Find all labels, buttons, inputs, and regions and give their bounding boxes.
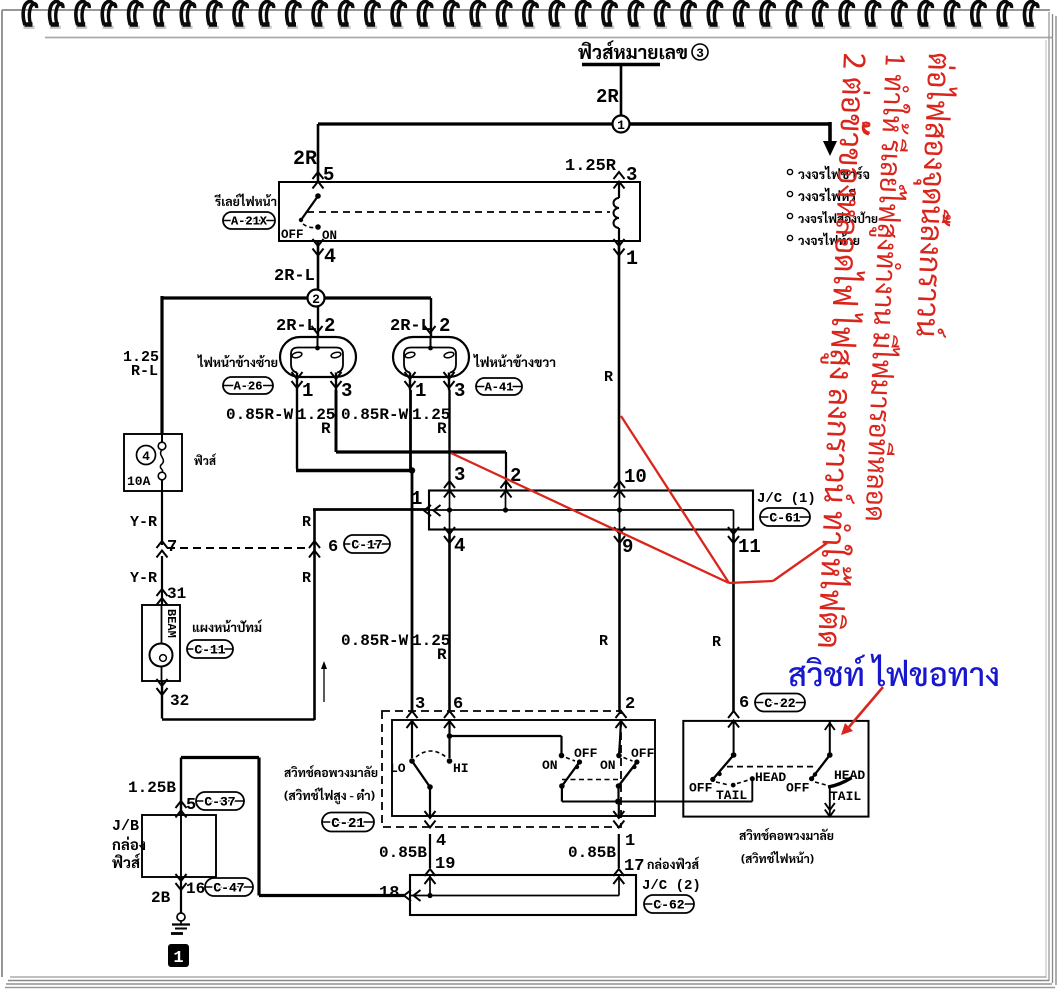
svg-text:3: 3 (696, 46, 704, 61)
dashed OFF-TAIL pole1 (716, 782, 729, 785)
dashed ON-OFF link B (624, 758, 633, 762)
grey rule under binding (45, 37, 1052, 39)
JC1 pin10 arrows (614, 481, 625, 488)
circled 4 (137, 446, 156, 465)
beam indicator box C-11 (142, 605, 180, 681)
wire 0.85R-W down to C-21 pin3 (411, 471, 414, 713)
pole1 arm (713, 755, 734, 779)
passing switch A ON contact (559, 753, 565, 759)
svg-text:19: 19 (435, 855, 455, 874)
svg-text:J/B: J/B (112, 818, 139, 835)
junction box J/C(2) C-62 (410, 875, 636, 915)
wire down to C-37 pin5 (180, 758, 182, 816)
lighting switch pole1 contact (731, 752, 737, 758)
svg-text:32: 32 (170, 692, 189, 710)
svg-text:2R-L: 2R-L (274, 267, 315, 286)
relay label Thai (214, 193, 276, 206)
svg-text:3: 3 (454, 380, 465, 402)
svg-text:2R-L: 2R-L (276, 317, 317, 336)
wire 2R from fuse to node 1 (620, 65, 623, 117)
circuit list row 1 (787, 169, 792, 174)
wire node1 to relay pin5 (318, 122, 613, 125)
wire to JC1 pin2 (505, 452, 507, 490)
svg-text:2R: 2R (293, 148, 317, 171)
relay coil (618, 182, 620, 198)
C-21 pin1 arrows (613, 811, 624, 818)
svg-text:BEAM: BEAM (164, 609, 178, 638)
passing switch A OFF contact (577, 759, 582, 764)
dashed TAIL-HEAD pole1 (737, 780, 749, 784)
bold wire 1.25R horizontal (336, 450, 506, 453)
svg-text:ON: ON (600, 758, 616, 773)
wire HEAD down to dimmer bus (751, 779, 753, 802)
passing switch B ON contact (616, 753, 622, 759)
JC1 pin2 arrows (501, 481, 512, 488)
JC1 pin11 arrows (728, 527, 739, 534)
red pointer line from 1.25R wire (451, 453, 729, 583)
oval C-21 (322, 813, 374, 832)
label box Thai (112, 837, 145, 851)
svg-text:6: 6 (453, 695, 463, 714)
red pointer line from R wire (621, 416, 729, 583)
wire node2 to right bulb (324, 296, 431, 299)
dashed box C-21 (382, 711, 621, 827)
wire node1 to right feed arrow (629, 122, 830, 126)
HEAD contact pole1 (750, 776, 755, 781)
svg-text:OFF: OFF (574, 746, 598, 761)
svg-text:Y-R: Y-R (130, 514, 157, 531)
wire JC1 pin11 down to C-22 (732, 530, 735, 713)
svg-text:HI: HI (453, 761, 469, 776)
svg-text:R: R (302, 514, 311, 531)
svg-text:0.85R-W: 0.85R-W (341, 632, 409, 650)
svg-text:1: 1 (626, 248, 638, 271)
label hi-lo switch Thai (284, 788, 374, 805)
svg-text:HEAD: HEAD (755, 770, 786, 785)
label fuse box Thai JC2 (647, 857, 699, 869)
svg-text:4: 4 (324, 246, 336, 269)
JC1 pin9 arrows (614, 527, 625, 534)
svg-text:11: 11 (738, 536, 761, 558)
svg-text:2B: 2B (151, 889, 171, 907)
svg-text:31: 31 (167, 585, 186, 603)
C-37 pin5 arrows (176, 801, 187, 808)
JC2 pin19 arrows (425, 869, 436, 876)
C-47 pin16 arrows (176, 874, 187, 881)
svg-text:TAIL: TAIL (716, 788, 747, 803)
svg-text:3: 3 (454, 464, 465, 486)
svg-text:C-61: C-61 (769, 510, 800, 525)
wire fuse to pin7 (161, 491, 163, 545)
JC2 inner bus (410, 895, 619, 897)
pin2 chevron left bulb (312, 326, 323, 333)
node 1 (613, 116, 630, 133)
oval A-41 (476, 378, 522, 395)
pole2 TAIL thick arm (828, 778, 852, 787)
bottom page-stack lines (10, 976, 1046, 978)
svg-text:3: 3 (341, 380, 352, 402)
svg-text:R: R (604, 369, 613, 386)
pole2 output down arrow (829, 785, 831, 817)
wire R vertical C-17 (313, 509, 316, 721)
page number badge 1 (168, 944, 189, 967)
svg-text:1: 1 (411, 488, 422, 510)
headlamp left A-26 (280, 337, 356, 377)
C-21 pin6 arrows (444, 711, 455, 718)
notebook left border (1, 10, 3, 977)
fuse junction block J/B box (142, 815, 216, 877)
JC1 pin3 arrows (444, 481, 455, 488)
svg-text:C-17: C-17 (351, 537, 382, 552)
passing switch A arm (562, 762, 580, 786)
oval C-22 (755, 694, 805, 712)
relay headlight relay box A-21X (279, 182, 640, 241)
svg-text:OFF: OFF (631, 746, 655, 761)
circuit list row 2 (787, 191, 792, 196)
svg-text:C-22: C-22 (764, 696, 795, 711)
pin 31 (157, 589, 168, 596)
wire left bulb pin1 down (296, 390, 298, 469)
svg-text:6: 6 (328, 538, 338, 557)
svg-text:TAIL: TAIL (830, 789, 861, 804)
lighting switch box C-22 (683, 721, 868, 817)
wire pin32 to R riser (161, 681, 163, 719)
wire through beam box (161, 605, 163, 681)
fuse label Thai (194, 453, 216, 465)
wire pin6 to HI (448, 720, 450, 758)
wire junction down to pin1 (618, 802, 620, 817)
wire pivot to pin4 (429, 787, 431, 816)
svg-text:1.25R: 1.25R (565, 157, 617, 176)
JC2 pin17 arrows (613, 869, 624, 876)
svg-text:10: 10 (624, 466, 647, 488)
svg-text:0.85B: 0.85B (568, 844, 616, 862)
oval A-26 (223, 377, 273, 394)
svg-text:2: 2 (625, 695, 635, 714)
svg-text:1: 1 (625, 832, 635, 851)
wire R from relay pin1 to JC1 pin10 (618, 241, 621, 490)
red note line 2 rotated (857, 55, 913, 521)
svg-text:4: 4 (142, 449, 150, 464)
wire to JC1 pin3 (448, 452, 450, 490)
svg-text:R: R (712, 634, 721, 651)
wire to ground (180, 877, 182, 913)
wire pin1 down to JC2 pin17 (618, 834, 620, 868)
svg-text:C-47: C-47 (213, 880, 244, 895)
passing switch B arm (619, 762, 637, 786)
svg-text:16: 16 (186, 880, 205, 898)
svg-text:Y-R: Y-R (130, 570, 157, 587)
svg-text:J/C (2): J/C (2) (642, 878, 701, 894)
svg-text:R: R (437, 646, 447, 664)
bold wire C-17 to JC1 pin1 (313, 508, 429, 511)
pin 7 (157, 541, 168, 548)
node 2 (308, 290, 325, 307)
svg-text:2: 2 (324, 315, 335, 337)
svg-text:C-21: C-21 (331, 816, 365, 832)
junction dot low beam (409, 467, 415, 473)
svg-text:OFF: OFF (281, 228, 304, 242)
C-22 pin6 arrows (728, 711, 739, 718)
svg-text:1: 1 (173, 949, 183, 968)
TAIL contact pole1 (731, 783, 736, 788)
bold wire joining low-beam wires (296, 469, 412, 472)
dashed link between passing switches (562, 779, 619, 781)
label steering column switch C-22 Thai (739, 828, 833, 840)
headlamp right label Thai (473, 354, 555, 367)
svg-text:4: 4 (436, 832, 446, 851)
pin 4 relay (313, 239, 324, 246)
passing switch B OFF contact (634, 759, 639, 764)
svg-text:9: 9 (622, 536, 633, 558)
solid box dimmer switch (392, 720, 655, 816)
pole2 riser with up arrow (829, 721, 831, 755)
fuse element (161, 434, 163, 443)
bus junction dot (615, 799, 621, 805)
LO HI contacts (409, 758, 415, 764)
svg-text:C-11: C-11 (194, 642, 225, 657)
JC1 internal pin wires (449, 491, 451, 530)
svg-text:6: 6 (739, 694, 749, 713)
circuit list row 4 (787, 235, 792, 240)
wire pin3 to LO (411, 720, 413, 758)
pin 6 C-17 (309, 541, 320, 548)
wire R JC1 pin9 down (618, 530, 621, 713)
svg-text:R-L: R-L (131, 363, 158, 380)
pin 1 relay (614, 239, 625, 246)
wire pin2 to ON B (620, 720, 621, 740)
svg-text:R: R (321, 420, 331, 438)
headlamp right A-41 (393, 337, 469, 377)
pin 3 relay (614, 172, 625, 179)
oval C-61 (760, 508, 810, 526)
dimmer switch arm (412, 761, 430, 787)
svg-text:1: 1 (617, 118, 625, 133)
svg-text:10A: 10A (127, 474, 151, 489)
pole2 arm (812, 755, 830, 779)
label headlight switch Thai (741, 851, 813, 864)
dimmer output bus wire (562, 801, 752, 803)
svg-text:17: 17 (624, 857, 644, 876)
svg-text:R: R (599, 633, 608, 650)
svg-text:A-41: A-41 (485, 381, 514, 395)
C-21 pin2 arrows (616, 711, 627, 718)
dashed arc LO-HI (416, 751, 446, 757)
current direction arrow (323, 668, 325, 702)
wire arm B down to bus junction (617, 786, 619, 802)
JC1 bus dots (447, 507, 452, 512)
svg-text:LO: LO (390, 761, 406, 776)
C-21 pin4 arrows (425, 811, 436, 818)
feed arrowhead (823, 141, 837, 156)
oval C-62 (644, 895, 694, 913)
svg-text:ON: ON (542, 758, 558, 773)
wire to beam box (161, 556, 163, 605)
red note line 1 rotated (907, 53, 959, 338)
oval A-21X (223, 212, 275, 229)
wire through J/B (180, 815, 182, 877)
svg-text:J/C (1): J/C (1) (757, 491, 816, 507)
svg-text:1.25B: 1.25B (128, 779, 176, 797)
wire left bulb pin3 down bold (335, 390, 338, 452)
wire 1.25R JC1 pin4 down (448, 530, 451, 713)
svg-text:R: R (437, 420, 447, 438)
oval C-47 (205, 878, 253, 896)
ground bus bold wire (181, 756, 259, 759)
wire pin6 into box (733, 721, 735, 755)
wire relay pin4 to node 2 (317, 241, 320, 290)
wire node2 down to left bulb (317, 306, 319, 337)
dashed connector line C-17 (167, 547, 309, 549)
svg-text:OFF: OFF (689, 781, 713, 796)
wire right bulb pin3 down (448, 390, 450, 452)
svg-text:0.85B: 0.85B (379, 844, 427, 862)
ground symbol (177, 913, 185, 921)
svg-text:2: 2 (312, 292, 320, 307)
label fuse Thai JB (112, 853, 140, 868)
svg-text:18: 18 (379, 884, 399, 903)
circuit list row 3 (787, 213, 792, 218)
right page-stack lines (1048, 12, 1050, 981)
svg-text:C-62: C-62 (653, 897, 684, 912)
fuse bus bar (582, 63, 660, 67)
svg-text:ON: ON (322, 229, 337, 243)
red note line 3 rotated (808, 53, 875, 647)
pin 5 (313, 172, 324, 179)
pole2 contact (827, 752, 833, 758)
svg-text:1: 1 (415, 380, 426, 402)
wire right bulb pin1 down (409, 390, 412, 472)
svg-text:0.85R-W: 0.85R-W (226, 406, 294, 424)
headlamp left label Thai (197, 354, 277, 367)
svg-text:R: R (302, 570, 311, 587)
wire arm A to bus (561, 786, 563, 802)
wire node2 to left down (162, 296, 308, 299)
JC2 pin18 arrows (404, 890, 411, 901)
svg-text:5: 5 (186, 796, 196, 815)
svg-text:2: 2 (439, 315, 450, 337)
svg-text:4: 4 (454, 535, 465, 557)
JC1 inner bus line (429, 509, 734, 511)
svg-text:2R: 2R (596, 86, 619, 108)
blue label turn signal switch (789, 654, 998, 686)
svg-text:C-37: C-37 (204, 794, 235, 809)
svg-text:A-21X: A-21X (231, 215, 268, 229)
pin 32 (157, 679, 168, 686)
svg-text:OFF: OFF (786, 781, 810, 796)
oval C-37 (196, 792, 244, 810)
dashed OFF-TAIL pole2 (815, 782, 826, 785)
fuse label - fuse number 3 (578, 40, 687, 59)
panel label Thai (193, 620, 262, 633)
svg-text:A-26: A-26 (234, 380, 263, 394)
dashed ON-OFF link A (566, 758, 575, 762)
beam lamp symbol (150, 644, 173, 667)
label steering column switch Thai (284, 765, 377, 777)
spiral binding coils (24, 26, 35, 30)
relay dashed actuation line (307, 211, 610, 213)
svg-text:3: 3 (415, 695, 425, 714)
oval C-11 (187, 640, 233, 658)
red arrow to C-22 (849, 687, 883, 727)
JC1 pin4 arrows (444, 527, 455, 534)
oval C-17 (344, 535, 390, 553)
JC1 pin1 arrows (424, 505, 431, 516)
relay switch contact (315, 193, 321, 199)
red pointer connector segment (729, 581, 773, 583)
notebook top edge line (2, 9, 1050, 11)
pin2 chevron right bulb (425, 326, 436, 333)
junction box J/C(1) C-61 (429, 491, 753, 530)
HI junction to passing switch (447, 733, 453, 739)
svg-text:0.85R-W: 0.85R-W (341, 406, 409, 424)
svg-text:1: 1 (302, 380, 313, 402)
wire pin4 down to JC2 pin19 (429, 834, 431, 868)
dashed link between poles C-22 (727, 766, 817, 768)
C-21 pin3 arrows (407, 711, 418, 718)
fuse box 4 10A (124, 434, 182, 491)
